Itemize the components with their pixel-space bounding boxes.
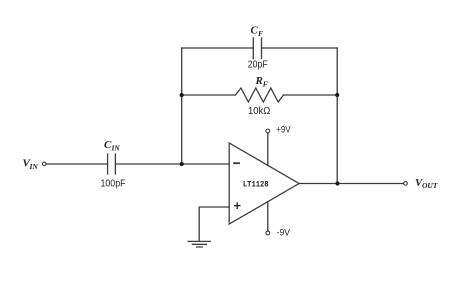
node C junction (right feedback / RF)	[335, 93, 339, 97]
value 10k ohm	[248, 105, 270, 117]
wire RF right lead	[283, 94, 337, 96]
svg-text:IN: IN	[111, 143, 121, 152]
terminal VIN	[42, 162, 46, 166]
op-amp minus input symbol	[233, 162, 240, 164]
label RF	[255, 75, 268, 88]
ground	[188, 241, 210, 247]
wire output	[299, 183, 404, 185]
wire +9V supply	[267, 133, 269, 165]
wire top left to CF	[182, 47, 254, 49]
wire CF to top right	[262, 47, 338, 49]
svg-text:10kΩ: 10kΩ	[248, 105, 270, 117]
resistor RF	[235, 88, 283, 102]
label VOUT	[415, 177, 438, 190]
wire RF left lead	[182, 94, 236, 96]
wire input right segment to op-amp inverting input	[115, 163, 229, 165]
label CF	[251, 25, 264, 38]
node D junction (output / feedback)	[335, 181, 339, 185]
terminal -9V	[266, 231, 270, 235]
value 20pF	[248, 58, 268, 70]
node B junction (input / feedback)	[180, 162, 184, 166]
wire right vertical feedback branch	[336, 48, 338, 184]
label CIN	[104, 139, 120, 152]
svg-text:100pF: 100pF	[101, 178, 126, 190]
svg-text:R: R	[255, 75, 263, 87]
capacitor CIN	[108, 154, 116, 174]
value 100pF	[101, 178, 126, 190]
label VIN	[23, 158, 39, 172]
terminal VOUT	[404, 182, 408, 186]
node A junction (left feedback / RF)	[180, 93, 184, 97]
label LT1128	[243, 179, 269, 189]
svg-text:-9V: -9V	[277, 228, 290, 238]
svg-text:OUT: OUT	[422, 181, 438, 190]
terminal +9V	[266, 129, 270, 133]
wire -9V supply	[267, 202, 269, 231]
svg-text:20pF: 20pF	[248, 58, 268, 70]
svg-text:LT1128: LT1128	[243, 179, 269, 189]
svg-text:IN: IN	[29, 162, 39, 171]
capacitor CF	[253, 38, 261, 59]
svg-text:F: F	[258, 29, 263, 38]
op-amp plus input symbol	[234, 202, 241, 209]
svg-text:+9V: +9V	[276, 125, 290, 135]
wire input left segment	[47, 163, 108, 165]
wire non-inverting input to ground	[199, 207, 229, 241]
label -9V	[277, 228, 290, 238]
svg-text:F: F	[263, 79, 268, 88]
op-amp U1 triangle	[229, 143, 299, 224]
wire left vertical feedback branch	[181, 48, 183, 164]
label +9V	[276, 125, 290, 135]
